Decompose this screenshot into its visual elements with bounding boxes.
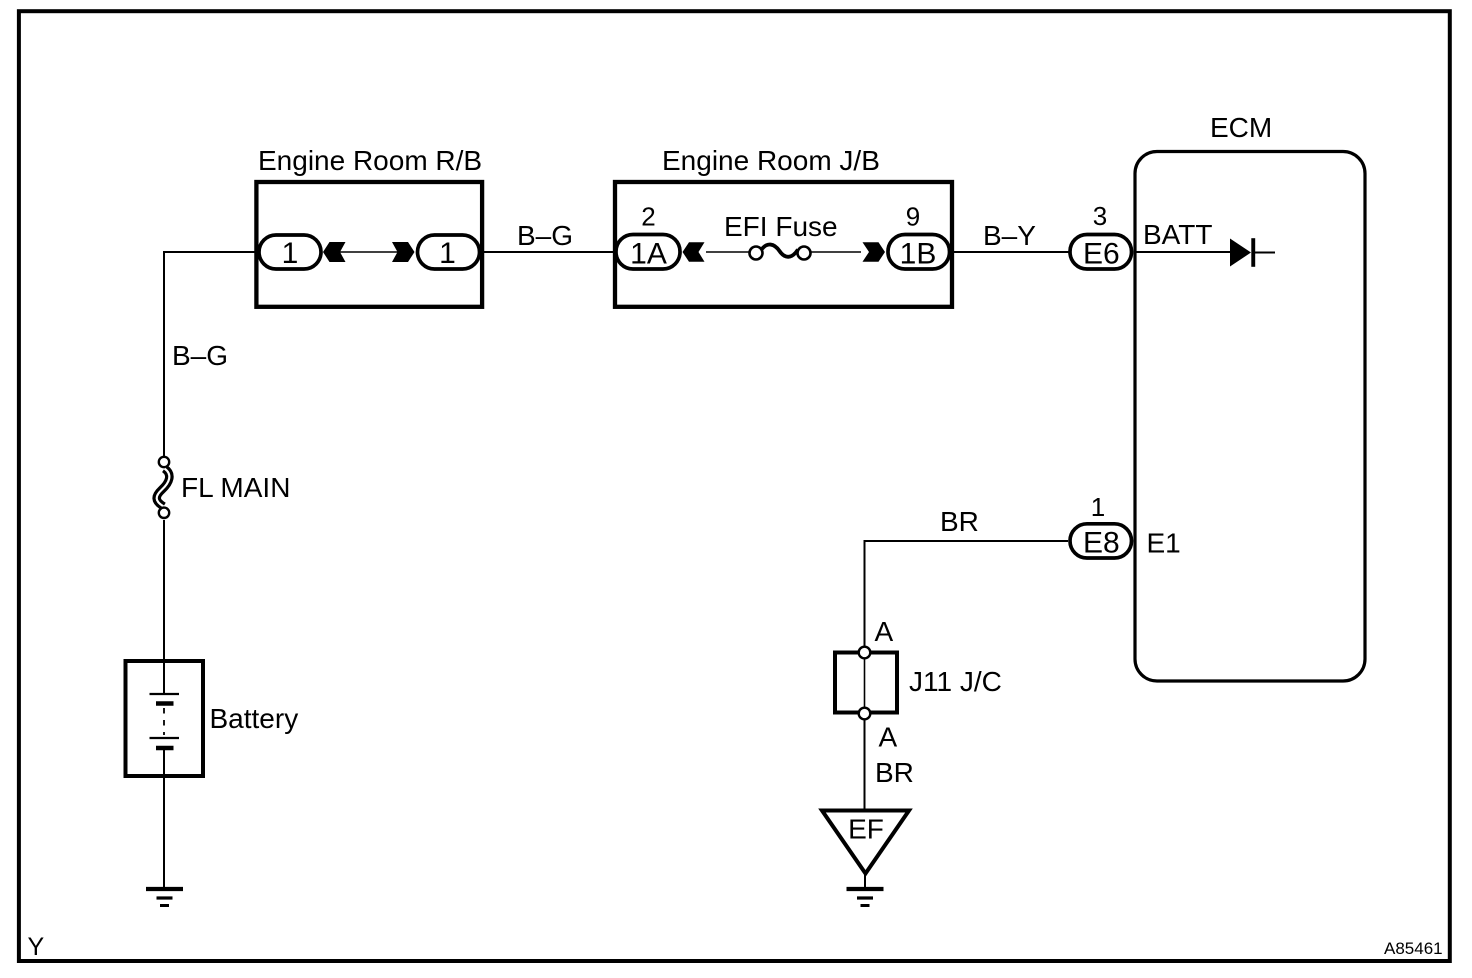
svg-text:A: A — [875, 616, 894, 647]
wire battery branch up and over to R/B — [164, 252, 258, 456]
fuse EFI: right terminal circle — [798, 247, 811, 260]
battery plate + long (lower cell) — [150, 737, 180, 739]
relay block Engine Room R/B box — [256, 182, 482, 307]
battery box — [126, 661, 204, 776]
wire inside R/B between connectors — [340, 251, 398, 253]
J11 bottom terminal circle — [859, 708, 871, 720]
svg-text:FL MAIN: FL MAIN — [181, 472, 290, 503]
connector oval 1 (left, R/B) — [259, 235, 321, 269]
svg-text:Battery: Battery — [210, 703, 299, 734]
wire E6 to diode — [1135, 251, 1230, 253]
junction connector J11 J/C box — [835, 653, 897, 713]
svg-text:Y: Y — [28, 933, 45, 961]
svg-text:1: 1 — [1091, 492, 1105, 522]
wire battery to ground — [163, 750, 165, 887]
ground point triangle EF — [822, 811, 909, 874]
svg-text:E1: E1 — [1147, 527, 1181, 558]
connector arrow (male half, J/B right) — [863, 242, 886, 261]
wire after diode — [1255, 252, 1275, 254]
svg-text:A85461: A85461 — [1384, 939, 1443, 958]
wire R/B to J/B (B-G) — [480, 251, 616, 253]
svg-text:2: 2 — [641, 202, 655, 232]
svg-text:BR: BR — [875, 757, 914, 788]
connector oval E6 — [1070, 235, 1132, 270]
svg-text:A: A — [879, 722, 898, 753]
svg-text:EF: EF — [848, 814, 884, 845]
fuse EFI: element wave — [762, 245, 798, 257]
svg-text:B–G: B–G — [172, 340, 228, 371]
svg-text:BATT: BATT — [1143, 219, 1212, 250]
connector arrow (male half, R/B right) — [392, 242, 415, 262]
junction block Engine Room J/B box — [615, 182, 952, 307]
svg-text:BR: BR — [940, 506, 979, 537]
fuse EFI: left terminal circle — [750, 247, 763, 260]
svg-text:1: 1 — [282, 237, 299, 270]
svg-text:B–G: B–G — [517, 220, 573, 251]
connector arrow (female half, R/B left) — [323, 242, 346, 262]
battery plate + long (upper cell) — [150, 693, 180, 695]
fusible link FL MAIN: top circle — [159, 457, 169, 467]
svg-text:EFI Fuse: EFI Fuse — [724, 211, 838, 242]
svg-text:ECM: ECM — [1210, 112, 1272, 143]
svg-text:9: 9 — [906, 202, 920, 232]
wire through J11 — [864, 658, 866, 708]
svg-text:1B: 1B — [900, 238, 937, 271]
svg-text:Engine Room R/B: Engine Room R/B — [258, 145, 482, 176]
battery dashed center link — [163, 708, 165, 735]
svg-text:J11 J/C: J11 J/C — [909, 666, 1002, 697]
svg-text:E6: E6 — [1083, 238, 1120, 271]
ground (battery side) — [146, 889, 183, 906]
ground (EF) — [847, 889, 884, 906]
wire FL MAIN to battery — [163, 520, 165, 693]
svg-text:1: 1 — [439, 237, 456, 270]
battery plate - short thick (upper cell) — [156, 701, 174, 706]
connector oval 1A — [616, 235, 680, 270]
battery plate - short thick (lower cell) — [156, 746, 174, 751]
wire J/B to E6 (B-Y) — [953, 251, 1070, 253]
wire BR horizontal E8 to J11 — [865, 541, 1069, 647]
fusible link FL MAIN: bottom circle — [159, 508, 169, 518]
svg-text:B–Y: B–Y — [983, 220, 1036, 251]
wire J11 to EF — [864, 720, 866, 810]
connector oval 1B — [888, 235, 950, 270]
ECM box — [1135, 152, 1365, 682]
connector oval E8 — [1070, 524, 1132, 558]
diode anode triangle — [1230, 239, 1251, 267]
J11 top terminal circle — [859, 647, 871, 659]
connector arrow (female half, J/B left) — [683, 242, 705, 261]
fusible link FL MAIN: wavy element — [157, 469, 170, 507]
wire 1A arrow to fuse — [706, 251, 750, 253]
wire EF apex to ground — [864, 873, 866, 887]
svg-text:Engine Room J/B: Engine Room J/B — [662, 145, 880, 176]
svg-text:1A: 1A — [630, 238, 667, 271]
svg-text:3: 3 — [1093, 201, 1107, 231]
connector oval 1 (right, R/B) — [418, 235, 480, 269]
svg-text:E8: E8 — [1083, 526, 1120, 559]
diode cathode bar — [1251, 238, 1255, 267]
wire fuse to arrow — [811, 251, 861, 253]
